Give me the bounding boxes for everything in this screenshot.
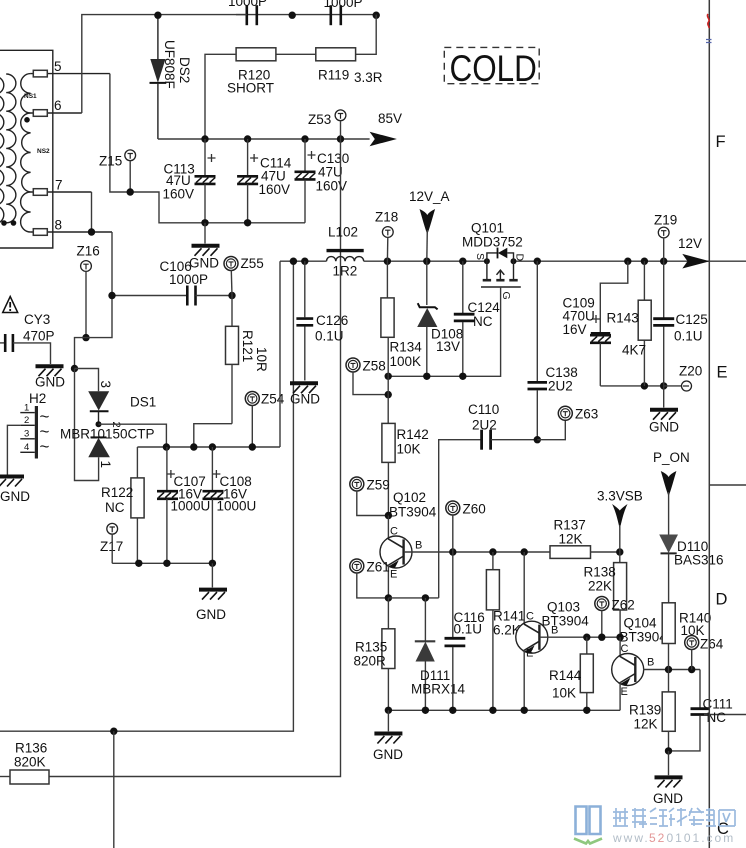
testpoint Z61 [350, 559, 390, 598]
capacitor C106 1000P [112, 259, 232, 306]
node Q103 collector [521, 548, 528, 555]
ground GND (12V) [649, 410, 679, 435]
node Z58 junction [385, 391, 392, 398]
margin tick E/D [709, 484, 746, 486]
svg-text:MBRX14: MBRX14 [411, 682, 466, 697]
ground GND (H2) [0, 477, 30, 505]
phase dot pin8 b [1, 220, 7, 226]
node C116 bottom [449, 707, 456, 714]
svg-text:R144: R144 [549, 668, 582, 683]
node C114 bottom [244, 219, 251, 226]
watermark book icon [574, 807, 602, 844]
svg-text:C: C [526, 611, 534, 623]
svg-text:Z54: Z54 [261, 392, 285, 407]
svg-text:3: 3 [98, 381, 113, 389]
node C125 bottom [660, 382, 667, 389]
svg-text:Q104: Q104 [624, 616, 658, 631]
resistor R141 6.2K [486, 552, 525, 710]
node C130 top [301, 135, 308, 142]
svg-text:R136: R136 [15, 741, 47, 756]
svg-text:Z63: Z63 [575, 407, 598, 422]
svg-text:MBR10150CTP: MBR10150CTP [60, 427, 155, 442]
resistor R144 10K [549, 637, 593, 710]
svg-text:R137: R137 [554, 518, 586, 533]
wire pin7 down to pin8 [91, 192, 93, 232]
svg-text:B: B [415, 540, 422, 552]
svg-text:DS2: DS2 [177, 57, 192, 83]
node R121 top [228, 292, 235, 299]
node R143 bottom [641, 382, 648, 389]
node R144 bottom [583, 707, 590, 714]
svg-text:Z62: Z62 [612, 598, 635, 613]
svg-text:R143: R143 [607, 311, 639, 326]
testpoint Z17 [100, 523, 123, 563]
node D108 top [423, 258, 430, 265]
svg-text:G: G [500, 292, 512, 300]
capacitor C109 470U 16V [563, 296, 612, 386]
svg-text:R121: R121 [240, 330, 255, 362]
svg-text:E: E [390, 569, 397, 581]
node C124 top [459, 258, 466, 265]
frame border right [708, 0, 710, 848]
node R122 bottom [135, 560, 142, 567]
testpoint Z18 [375, 210, 398, 262]
svg-text:Z58: Z58 [363, 359, 386, 374]
svg-text:52: 52 [649, 831, 666, 845]
svg-text:R122: R122 [101, 485, 133, 500]
svg-text:Z60: Z60 [463, 502, 486, 517]
svg-text:GND: GND [373, 747, 403, 762]
svg-text:1: 1 [98, 461, 113, 469]
wire R134 bottom to R142 [387, 376, 389, 423]
svg-text:P_ON: P_ON [653, 450, 690, 465]
primary winding arcs (left, cut off) [0, 76, 4, 224]
node C109 path [624, 258, 631, 265]
svg-text:10R: 10R [254, 347, 269, 372]
wire DS1 cathode to bus [99, 424, 167, 447]
85V arrow [370, 111, 402, 146]
resistor R139 12K [629, 670, 675, 751]
svg-text:4K7: 4K7 [622, 343, 646, 358]
svg-text:820R: 820R [354, 654, 387, 669]
node pin8 junction [88, 228, 95, 235]
testpoint Z54 [245, 392, 284, 448]
wire branch to bottom edge [113, 731, 115, 848]
svg-text:4: 4 [24, 442, 29, 453]
svg-text:R134: R134 [390, 340, 423, 355]
node C124 bottom [459, 373, 466, 380]
capacitor C111 NC [669, 670, 746, 751]
svg-text:BT3904: BT3904 [389, 505, 437, 520]
svg-text:BAS316: BAS316 [674, 553, 724, 568]
svg-text:1000U: 1000U [171, 499, 211, 514]
svg-text:F: F [716, 133, 726, 151]
svg-text:R142: R142 [397, 427, 429, 442]
base row Q103 [540, 636, 620, 638]
resistor R119 3.3R [316, 48, 383, 85]
capacitor C130 47U 160V [295, 139, 350, 223]
base row Q104 [643, 669, 700, 671]
svg-text:47U: 47U [318, 165, 343, 180]
testpoint Z15 [99, 150, 136, 196]
svg-text:GND: GND [290, 392, 320, 407]
svg-text:160V: 160V [163, 187, 195, 202]
resistor R143 4K7 [607, 261, 652, 386]
node 3.3VSB/R138 [616, 548, 623, 555]
ground GND (C126/main) [290, 383, 320, 406]
node GND leg [290, 258, 297, 265]
svg-text:Z59: Z59 [367, 478, 390, 493]
testpoint Z62 [595, 597, 635, 638]
testpoint Z60 [446, 501, 486, 552]
testpoint Z63 [537, 406, 598, 439]
resistor R140 10K [662, 603, 711, 670]
svg-text:E: E [526, 648, 533, 660]
svg-text:22K: 22K [588, 579, 612, 594]
svg-text:3.3VSB: 3.3VSB [597, 489, 643, 504]
gate rail [388, 300, 500, 377]
svg-text:85V: 85V [378, 111, 402, 126]
svg-text:R138: R138 [584, 565, 616, 580]
node bottom-left branch [110, 728, 117, 735]
watermark url [612, 831, 735, 845]
transformer T (left) [0, 50, 53, 248]
testpoint Z20 [664, 364, 703, 392]
svg-text:470P: 470P [23, 329, 55, 344]
svg-text:GND: GND [653, 791, 683, 806]
svg-text:B: B [551, 625, 558, 637]
node C107 bottom [163, 560, 170, 567]
ground GND (C108) [196, 590, 227, 622]
transistor Q102 BT3904 [380, 490, 437, 598]
svg-text:12K: 12K [559, 532, 583, 547]
node C113 bottom [201, 219, 208, 226]
ground GND (caps) [189, 246, 220, 271]
svg-text:Z55: Z55 [241, 256, 264, 271]
node between top caps [289, 12, 296, 19]
wire to GND [211, 563, 213, 587]
transistor Q104 BT3904 [612, 616, 668, 711]
node D111 top [422, 594, 429, 601]
svg-text:0.1U: 0.1U [454, 622, 483, 637]
svg-text:H2: H2 [29, 391, 46, 406]
svg-text:160V: 160V [316, 179, 348, 194]
long wire 85V sense to R136 [49, 139, 341, 777]
svg-text:1000P: 1000P [169, 272, 208, 287]
node R135/GND [385, 707, 392, 714]
capacitor CY3 470P [0, 312, 55, 364]
testpoint Z55 [224, 256, 264, 296]
svg-text:SHORT: SHORT [227, 81, 274, 96]
svg-text:R139: R139 [629, 703, 661, 718]
node R144 top [583, 634, 590, 641]
svg-text:GND: GND [196, 607, 226, 622]
wire C113 bottom to GND [204, 223, 206, 244]
svg-text:1000U: 1000U [217, 499, 257, 514]
watermark chinese text [613, 808, 735, 828]
svg-text:1000P: 1000P [324, 0, 363, 10]
wire pin8 to C106 row [111, 232, 113, 296]
long wire GND net down-left [0, 261, 293, 731]
svg-text:www.: www. [612, 831, 650, 845]
svg-text:1000P: 1000P [228, 0, 267, 9]
schottky D111 MBRX14 [411, 598, 466, 710]
bottom rail C109/R143/C125 [600, 385, 663, 387]
capacitor C110 2U2 [439, 402, 538, 598]
bus C107/C108 (12V input) [137, 446, 280, 448]
svg-text:12V_A: 12V_A [409, 189, 450, 204]
svg-text:2U2: 2U2 [472, 418, 497, 433]
svg-text:Q103: Q103 [547, 600, 580, 615]
svg-text:5: 5 [54, 59, 62, 74]
phase dot NS2 [24, 117, 30, 123]
svg-text:Z61: Z61 [367, 560, 390, 575]
svg-text:~: ~ [40, 437, 50, 456]
node D111 bottom [422, 707, 429, 714]
wire pin5 down to Z15 row [110, 74, 305, 223]
testpoint Z58 [346, 358, 388, 395]
svg-text:Z18: Z18 [375, 210, 398, 225]
svg-text:Z64: Z64 [700, 637, 724, 652]
svg-text:0.1U: 0.1U [674, 329, 703, 344]
testpoint Z59 [350, 477, 390, 516]
testpoint Z53 [308, 110, 346, 139]
testpoint Z64 [685, 636, 724, 670]
capacitor C138 2U2 [528, 261, 578, 440]
svg-text:E: E [621, 686, 628, 698]
node C113 top [201, 135, 208, 142]
svg-text:3: 3 [24, 429, 29, 440]
svg-text:NC: NC [105, 500, 125, 515]
wire R135 to GND [387, 710, 389, 731]
svg-text:C: C [621, 643, 629, 655]
resistor R120 SHORT [227, 48, 276, 96]
dual diode DS1 MBR10150CTP [60, 381, 156, 469]
node R141 bottom [489, 707, 496, 714]
capacitor top-right 1000P (cut) [324, 0, 363, 25]
svg-text:DS1: DS1 [130, 395, 156, 410]
node DS1 anode tap [71, 365, 78, 372]
svg-text:Z19: Z19 [654, 213, 677, 228]
emitter row to C110 [388, 597, 438, 599]
svg-text:C124: C124 [468, 300, 501, 315]
svg-text:GND: GND [649, 420, 679, 435]
svg-text:S: S [474, 253, 486, 260]
node C138 top [534, 258, 541, 265]
blue printing mark [706, 40, 712, 43]
supply arrow 3.3VSB [597, 489, 643, 553]
12V arrow [678, 236, 710, 269]
wire top corner down to R119 [356, 15, 377, 55]
svg-text:Z16: Z16 [77, 244, 100, 259]
bottom row of C107/C108 [112, 562, 212, 564]
svg-text:C: C [390, 526, 398, 538]
phase dot pin8 a [11, 220, 17, 226]
ground GND (R139) [653, 777, 683, 806]
node D108 bottom [423, 373, 430, 380]
connector H2 [20, 391, 49, 459]
svg-text:UF808F: UF808F [162, 40, 177, 89]
warning triangle CY3 [3, 297, 18, 313]
svg-text:C126: C126 [316, 313, 348, 328]
supply arrow 12V_A [409, 189, 450, 261]
wire R119 to R120 [276, 53, 316, 55]
node DS2 top [154, 12, 161, 19]
svg-text:8: 8 [55, 218, 63, 233]
85V bus [158, 138, 370, 140]
svg-text:D: D [514, 254, 526, 262]
node R140/R139 [665, 666, 672, 673]
svg-text:820K: 820K [14, 755, 46, 770]
resistor R122 NC [101, 447, 144, 563]
svg-text:10K: 10K [552, 686, 576, 701]
mosfet Q101 MDD3752 [462, 221, 526, 300]
node Z60/C116 [449, 548, 456, 555]
node top right corner [373, 12, 380, 19]
svg-text:10K: 10K [397, 442, 421, 457]
pin 6 [31, 98, 82, 116]
svg-text:BT3904: BT3904 [542, 614, 590, 629]
transistor Q103 BT3904 [516, 552, 589, 710]
capacitor C126 0.1U [296, 261, 348, 380]
resistor R138 22K [584, 552, 627, 637]
testpoint Z16 [77, 244, 100, 342]
node Z53 tap [337, 135, 344, 142]
svg-text:7: 7 [55, 178, 63, 193]
resistor R134 100K [381, 261, 422, 376]
secondary winding NS2 arcs [21, 113, 31, 192]
resistor R136 820K [0, 741, 49, 785]
svg-text:2U2: 2U2 [548, 379, 573, 394]
wire H2 pin2 to GND [7, 425, 20, 474]
emitter bottom row [388, 709, 620, 711]
node C125 top [660, 258, 667, 265]
svg-text:1: 1 [24, 403, 29, 414]
pin 8 [31, 218, 112, 236]
node Z62 tap [598, 634, 605, 641]
secondary winding NS1 arcs [21, 74, 31, 113]
svg-text:160V: 160V [259, 182, 291, 197]
ground GND (CY3) [35, 366, 65, 389]
node Z64 tap [688, 666, 695, 673]
node C126 top [301, 258, 308, 265]
svg-text:C110: C110 [468, 402, 499, 417]
svg-text:6: 6 [54, 98, 62, 113]
wire to GND [668, 751, 670, 775]
node C108 top [209, 443, 216, 450]
resistor R137 12K [550, 518, 620, 559]
wire C125 bottom to GND [663, 386, 665, 408]
node R121 path [190, 443, 197, 450]
resistor R142 10K [382, 423, 429, 515]
inductor L102 1R2 [327, 225, 364, 279]
pin 5 [31, 59, 110, 77]
svg-text:COLD: COLD [449, 49, 536, 90]
transformer box outline [0, 50, 53, 248]
node Q102 collector [385, 512, 392, 519]
svg-text:100K: 100K [390, 354, 422, 369]
node C108 bottom [209, 560, 216, 567]
svg-text:13V: 13V [436, 339, 460, 354]
svg-text:Q102: Q102 [393, 490, 426, 505]
wire to DS1 bottom anode [75, 369, 99, 481]
svg-text:NS1: NS1 [24, 93, 37, 100]
wire to DS1 top anode [75, 369, 99, 392]
node C110/C138 [534, 436, 541, 443]
zener D108 13V [417, 261, 463, 376]
supply arrow P_ON [653, 450, 690, 535]
wire pin6 to top rail [82, 15, 376, 113]
primary winding arcs (middle) [6, 74, 16, 223]
resistor R121 10R [226, 296, 270, 424]
svg-text:L102: L102 [328, 225, 358, 240]
testpoint Z19 [654, 213, 677, 262]
capacitor C116 0.1U [445, 552, 485, 710]
node R139 bottom [665, 747, 672, 754]
COLD dashed box [444, 47, 539, 89]
diode D110 BAS316 [659, 535, 723, 603]
svg-text:E: E [717, 364, 728, 382]
svg-text:Z15: Z15 [99, 154, 122, 169]
svg-text:R141: R141 [493, 609, 525, 624]
node Z18 tap [384, 258, 391, 265]
svg-text:Z53: Z53 [308, 112, 331, 127]
svg-text:NC: NC [473, 314, 493, 329]
capacitor C114 47U 160V [237, 139, 292, 223]
node Z54 tap [249, 443, 256, 450]
svg-text:3.3R: 3.3R [354, 70, 383, 85]
capacitor C124 NC [454, 261, 500, 376]
svg-text:B: B [647, 657, 654, 669]
node DS1 feed [163, 443, 170, 450]
svg-text:NS2: NS2 [37, 148, 50, 155]
resistor R135 820R [354, 598, 395, 710]
node Q103 emitter [521, 707, 528, 714]
wire C109 top path [600, 261, 628, 332]
diode DS2 [150, 15, 193, 139]
svg-text:Z20: Z20 [679, 364, 702, 379]
node C114 top [244, 135, 251, 142]
capacitor C107 1000U 16V [157, 447, 210, 563]
svg-text:R135: R135 [355, 640, 387, 655]
node R141 top [489, 548, 496, 555]
node Q102 emitter row [385, 594, 392, 601]
pin 7 [31, 178, 92, 196]
svg-text:R119: R119 [318, 68, 349, 83]
svg-text:MDD3752: MDD3752 [462, 235, 523, 250]
capacitor C125 0.1U [653, 261, 708, 386]
node R134 bottom [385, 373, 392, 380]
svg-text:Q101: Q101 [471, 221, 504, 236]
red printing mark [707, 14, 709, 28]
svg-text:D: D [716, 591, 728, 609]
secondary winding 3 arcs [21, 192, 31, 232]
wire R120 left down to 85V bus [205, 54, 236, 139]
svg-text:2: 2 [24, 415, 29, 426]
svg-text:GND: GND [35, 375, 65, 390]
node R143 top [641, 258, 648, 265]
svg-text:16V: 16V [563, 322, 587, 337]
base row Q102 [404, 551, 550, 553]
12V rail row [280, 260, 327, 262]
svg-text:C125: C125 [676, 312, 708, 327]
wire 12V-row left leg down to bus [279, 261, 281, 447]
capacitor C108 1000U 16V [203, 447, 257, 563]
svg-text:CY3: CY3 [24, 312, 50, 327]
svg-text:0101.com: 0101.com [667, 831, 736, 845]
svg-text:GND: GND [0, 489, 30, 504]
svg-text:12K: 12K [634, 717, 658, 732]
